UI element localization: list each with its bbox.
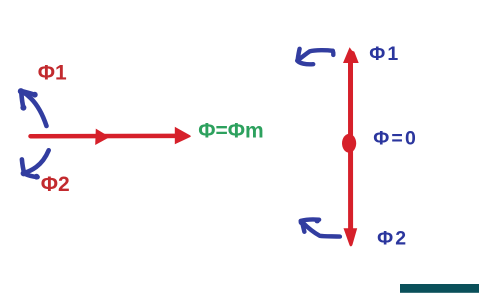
svg-text:Φ1: Φ1	[38, 61, 67, 84]
curved hook arrow top (blue, right diagram)	[297, 49, 333, 65]
label Φ=Φm (green)	[198, 120, 263, 143]
svg-text:Φ=0: Φ=0	[373, 128, 418, 150]
curved arrow down-left (blue, toward Φ2)	[21, 150, 49, 179]
node blob (red, middle of vertical arrow)	[342, 134, 356, 153]
arrowhead up	[343, 47, 359, 63]
svg-text:Φ=Φm: Φ=Φm	[198, 120, 263, 143]
label Φ=0 (blue)	[373, 128, 418, 150]
curved arrow up-left (blue, toward Φ1)	[18, 88, 47, 126]
label Φ1 (right, blue)	[369, 43, 400, 65]
vertical arrow shaft (red, right diagram)	[343, 47, 359, 246]
svg-text:Φ2: Φ2	[377, 228, 408, 250]
label Φ2 (left, red)	[41, 173, 70, 196]
svg-text:Φ2: Φ2	[41, 173, 70, 196]
label Φ2 (right, blue)	[377, 228, 408, 250]
arrowhead down	[344, 228, 358, 246]
svg-text:Φ1: Φ1	[369, 43, 400, 65]
curved hook arrow bottom (blue, right diagram)	[299, 218, 340, 237]
end arrowhead	[175, 127, 191, 144]
watermark bar (dark teal, bottom right)	[400, 284, 479, 293]
label Φ1 (left, red)	[38, 61, 67, 84]
arrow shaft (red horizontal, left diagram)	[31, 127, 191, 145]
mid arrowhead	[95, 129, 110, 145]
